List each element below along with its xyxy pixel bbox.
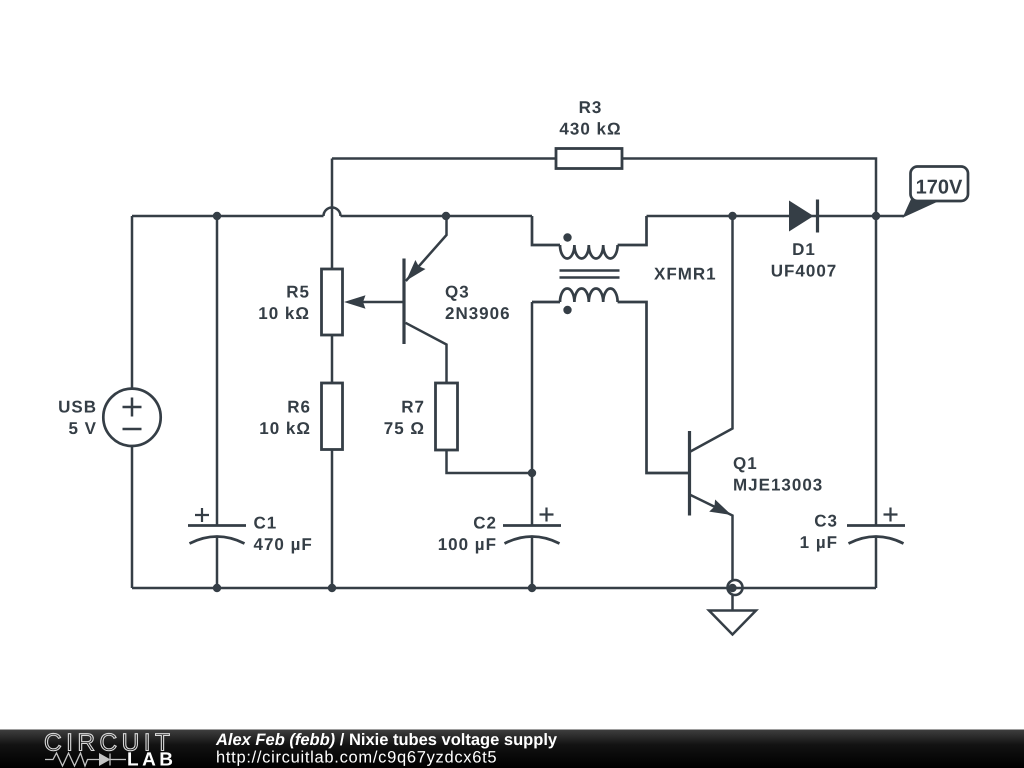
svg-text:100 µF: 100 µF — [438, 535, 497, 554]
node junction — [213, 584, 221, 592]
svg-text:UF4007: UF4007 — [771, 261, 837, 280]
XFMR1 phase dot bottom — [563, 306, 571, 314]
R7 bottom wire — [447, 450, 533, 473]
wire — [341, 215, 533, 218]
transformer XFMR1 — [532, 216, 688, 473]
node junction — [728, 212, 736, 220]
svg-text:C3: C3 — [814, 512, 838, 531]
transistor Q1 MJE13003 — [688, 431, 691, 516]
capacitor C1 470u — [188, 524, 246, 527]
svg-text:1 µF: 1 µF — [800, 533, 838, 552]
svg-text:C1: C1 — [254, 514, 278, 533]
svg-text:R3: R3 — [579, 98, 603, 117]
svg-text:R7: R7 — [401, 398, 425, 417]
wire — [132, 587, 876, 590]
svg-text:R5: R5 — [286, 283, 310, 302]
resistor R6 10k — [322, 383, 343, 450]
svg-text:Alex Feb (febb) / Nixie tubes: Alex Feb (febb) / Nixie tubes voltage su… — [215, 731, 558, 749]
svg-text:Q3: Q3 — [445, 283, 470, 302]
capacitor C3 1u — [875, 216, 878, 526]
Q3 emitter wire — [406, 216, 447, 281]
Q3 collector wire — [406, 323, 447, 383]
wire — [216, 537, 219, 588]
transistor Q3 2N3906 — [402, 259, 405, 345]
svg-text:Q1: Q1 — [733, 454, 758, 473]
wire — [131, 446, 134, 588]
node junction — [442, 212, 450, 220]
svg-text:10 kΩ: 10 kΩ — [259, 419, 311, 438]
potentiometer R5 10k — [322, 269, 343, 335]
node junction — [728, 584, 736, 592]
wire — [131, 216, 134, 389]
logo resistor-diode squiggle — [45, 753, 126, 766]
svg-text:470 µF: 470 µF — [254, 535, 313, 554]
svg-text:2N3906: 2N3906 — [445, 304, 511, 323]
svg-text:USB: USB — [58, 398, 97, 417]
svg-text:C2: C2 — [473, 514, 497, 533]
resistor R3 430k — [556, 149, 622, 169]
wire — [132, 215, 324, 218]
svg-text:R6: R6 — [287, 398, 311, 417]
node junction — [528, 469, 536, 477]
svg-text:170V: 170V — [916, 177, 963, 199]
svg-text:http://circuitlab.com/c9q67yzd: http://circuitlab.com/c9q67yzdcx6t5 — [216, 749, 497, 767]
svg-text:430 kΩ: 430 kΩ — [559, 119, 621, 138]
resistor R7 75 — [436, 383, 458, 450]
node flag 170V — [903, 198, 939, 218]
svg-text:D1: D1 — [792, 240, 816, 259]
ground — [728, 580, 743, 595]
wire — [647, 215, 877, 218]
svg-text:MJE13003: MJE13003 — [733, 475, 823, 494]
svg-text:LAB: LAB — [127, 750, 173, 768]
wire — [331, 335, 334, 383]
Q1 collector wire — [690, 216, 733, 452]
wire — [622, 159, 876, 217]
capacitor C2 100u — [531, 302, 534, 526]
svg-text:XFMR1: XFMR1 — [654, 265, 717, 284]
svg-text:75 Ω: 75 Ω — [384, 419, 425, 438]
node junction — [528, 584, 536, 592]
wire — [332, 157, 556, 160]
wire hop — [324, 208, 341, 217]
voltage source USB 5V — [103, 389, 160, 446]
svg-text:5 V: 5 V — [68, 419, 97, 438]
svg-text:10 kΩ: 10 kΩ — [258, 304, 310, 323]
node junction — [213, 212, 221, 220]
wire — [331, 450, 334, 589]
XFMR1 phase dot top — [563, 233, 571, 241]
wire — [876, 215, 904, 218]
node junction — [872, 212, 880, 220]
node junction — [328, 584, 336, 592]
R5 wiper arrow — [352, 301, 404, 304]
wire — [216, 216, 219, 526]
diode D1 UF4007 — [789, 201, 814, 232]
Q1 emitter wire — [690, 495, 733, 582]
wire — [331, 159, 334, 270]
